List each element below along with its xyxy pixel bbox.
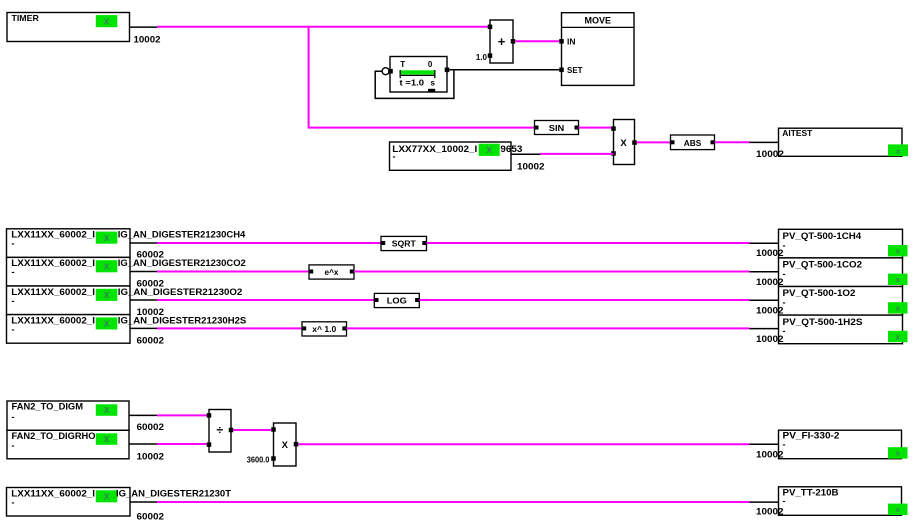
wire DIGRHO to divider D1 [157,443,210,445]
block ABS U4 [671,135,715,150]
svg-text:-: - [393,152,396,162]
svg-text:T: T [400,60,405,69]
svg-text:60002: 60002 [137,422,165,433]
svg-text:0: 0 [428,60,433,69]
wire PV_FI input stub [750,443,780,445]
block MOVE U2 [559,13,634,86]
svg-text:e^x: e^x [325,268,340,277]
svg-text:IG_AN_DIGESTER21230H2S: IG_AN_DIGESTER21230H2S [118,315,247,325]
function block SQRT row 1 [381,236,427,250]
svg-text:10002: 10002 [756,507,784,518]
svg-text:LXX11XX_60002_I: LXX11XX_60002_I [11,230,95,240]
wire digester T stub [130,501,157,503]
svg-text:MOVE: MOVE [585,16,612,26]
svg-text:LXX77XX_10002_I: LXX77XX_10002_I [392,144,477,154]
svg-text:LOG: LOG [387,297,407,306]
svg-text:s: s [431,79,436,88]
svg-text:TIMER: TIMER [12,13,39,23]
wire row 1 output stub [130,242,157,244]
svg-text:x^ 1.0: x^ 1.0 [312,325,337,334]
wire U1 output to MOVE.IN [515,40,560,42]
wire row 2 to e^x [157,271,311,273]
block PV_QT-500-1O2 [779,287,908,316]
block LXX11XX_60002 row 2 [7,257,246,286]
svg-text:X: X [104,262,110,272]
function block LOG row 3 [374,293,419,307]
svg-text:IG_AN_DIGESTER21230O2: IG_AN_DIGESTER21230O2 [118,287,242,297]
svg-text:IG_AN_DIGESTER21230CO2: IG_AN_DIGESTER21230CO2 [118,258,246,268]
wire X1 to ABS [637,141,672,143]
svg-text:IN: IN [567,38,576,47]
svg-text:IG_AN_DIGESTER21230CH4: IG_AN_DIGESTER21230CH4 [118,230,245,240]
wire LXX77XX to X1 [540,153,614,155]
block LXX11XX_60002 row 4 [7,315,247,344]
svg-text:10002: 10002 [756,450,784,461]
block LXX11XX_60002 digester T [7,488,232,517]
wire row 3 to LOG [157,299,376,301]
wire AITEST input stub [750,141,780,143]
svg-text:FAN2_TO_DIGM: FAN2_TO_DIGM [12,402,84,412]
svg-text:-: - [12,267,15,277]
wire LXX77XX stub [511,153,540,155]
divider D1 (÷) [207,410,234,453]
wire T1 feedback loop [375,70,454,99]
block FAN2_TO_DIGRHO [7,430,129,459]
block SIN U3 [535,121,579,135]
multiplier X2 (X) [271,423,298,466]
svg-text:10002: 10002 [137,451,165,462]
svg-text:X: X [486,145,492,155]
svg-text:-: - [12,441,15,451]
block FAN2_TO_DIGM [7,401,129,430]
wire branch down to SIN [309,27,536,128]
wire X2 to PV_FI-330-2 [298,443,749,445]
svg-text:60002: 60002 [137,512,165,523]
svg-text:X: X [282,440,289,451]
block LXX11XX_60002 row 1 [7,229,246,258]
svg-text:PV_QT-500-1CH4: PV_QT-500-1CH4 [783,231,862,241]
svg-text:10002: 10002 [517,161,545,172]
wire LOG to PV block row 3 [419,299,749,301]
svg-text:-: - [783,440,786,450]
svg-text:SIN: SIN [549,124,565,133]
timer pulse block T1 [382,57,449,93]
wire D1 to multiplier X2 [233,429,274,431]
function block e^x row 2 [309,265,354,279]
svg-text:PV_FI-330-2: PV_FI-330-2 [783,431,840,441]
wire PV input stub row 3 [750,299,780,301]
wire row 1 to SQRT [157,242,383,244]
wire row 4 output stub [130,327,157,329]
svg-text:PV_QT-500-1CO2: PV_QT-500-1CO2 [783,260,863,270]
wire row 2 output stub [130,271,157,273]
svg-text:X: X [104,233,110,243]
svg-text:SET: SET [567,66,583,75]
wire DIGM to divider D1 [157,414,210,416]
wire PV input stub row 2 [750,271,780,273]
wire x^ 1.0 to PV block row 4 [347,327,750,329]
svg-text:-: - [12,239,15,249]
wire row 4 to x^ 1.0 [157,327,304,329]
svg-text:LXX11XX_60002_I: LXX11XX_60002_I [11,258,95,268]
svg-text:FAN2_TO_DIGRHO: FAN2_TO_DIGRHO [12,431,96,441]
svg-text:t =1.0: t =1.0 [400,79,425,88]
multiplier X1 (X) [611,120,637,165]
svg-text:-: - [12,498,15,508]
svg-text:IG_AN_DIGESTER21230T: IG_AN_DIGESTER21230T [116,488,232,498]
svg-text:LXX11XX_60002_I: LXX11XX_60002_I [11,315,95,325]
svg-text:+: + [498,34,506,49]
svg-text:ABS: ABS [684,139,702,148]
wire row 3 output stub [130,299,157,301]
svg-text:10002: 10002 [756,149,784,160]
svg-text:X: X [104,16,110,26]
block LXX77XX_10002 [390,142,523,170]
svg-text:9653: 9653 [500,144,522,154]
wire FAN2_TO_DIGM stub [129,414,157,416]
svg-text:-: - [12,296,15,306]
wire PV_TT input stub [750,501,780,503]
svg-text:X: X [620,138,627,149]
svg-text:X: X [104,290,110,300]
block PV_QT-500-1H2S [779,315,908,344]
svg-text:60002: 60002 [137,336,165,347]
adder U1 (+) [488,20,516,63]
svg-text:1.0: 1.0 [476,53,488,62]
svg-text:-: - [12,412,15,422]
svg-text:X: X [104,434,110,444]
block PV_TT-210B [779,487,908,516]
svg-text:10002: 10002 [756,334,784,345]
wire e^x to PV block row 2 [354,271,750,273]
wire digester T to PV_TT-210B [157,501,750,503]
svg-text:-: - [783,496,786,506]
svg-text:÷: ÷ [217,423,224,437]
svg-text:X: X [104,492,110,502]
block PV_QT-500-1CO2 [779,258,908,287]
block LXX11XX_60002 row 3 [7,286,243,315]
svg-text:3600.0: 3600.0 [247,455,270,464]
wire SQRT to PV block row 1 [427,242,750,244]
block PV_QT-500-1CH4 [779,229,908,258]
wire T1 output to MOVE.SET [447,69,561,71]
svg-text:10002: 10002 [134,34,161,45]
wire PV input stub row 1 [750,242,780,244]
block TIMER [7,13,130,42]
svg-text:AITEST: AITEST [782,128,813,138]
svg-text:PV_TT-210B: PV_TT-210B [783,487,840,497]
svg-text:-: - [12,324,15,334]
wire TIMER output to adder U1 [157,26,491,28]
svg-text:SQRT: SQRT [392,240,416,249]
wire FAN2_TO_DIGRHO stub [129,443,157,445]
svg-text:X: X [104,405,110,415]
wire PV input stub row 4 [750,328,780,330]
function block x^ 1.0 row 4 [302,322,347,336]
svg-text:PV_QT-500-1H2S: PV_QT-500-1H2S [783,317,863,327]
svg-text:PV_QT-500-1O2: PV_QT-500-1O2 [783,288,856,298]
svg-text:LXX11XX_60002_I: LXX11XX_60002_I [11,287,95,297]
wire TIMER output stub [130,26,158,28]
wire SIN to multiplier X1 [579,127,615,129]
wire ABS to AITEST [715,141,751,143]
block AITEST [779,128,909,156]
svg-text:LXX11XX_60002_I: LXX11XX_60002_I [11,488,95,498]
svg-text:X: X [104,319,110,329]
block PV_FI-330-2 [779,430,908,459]
